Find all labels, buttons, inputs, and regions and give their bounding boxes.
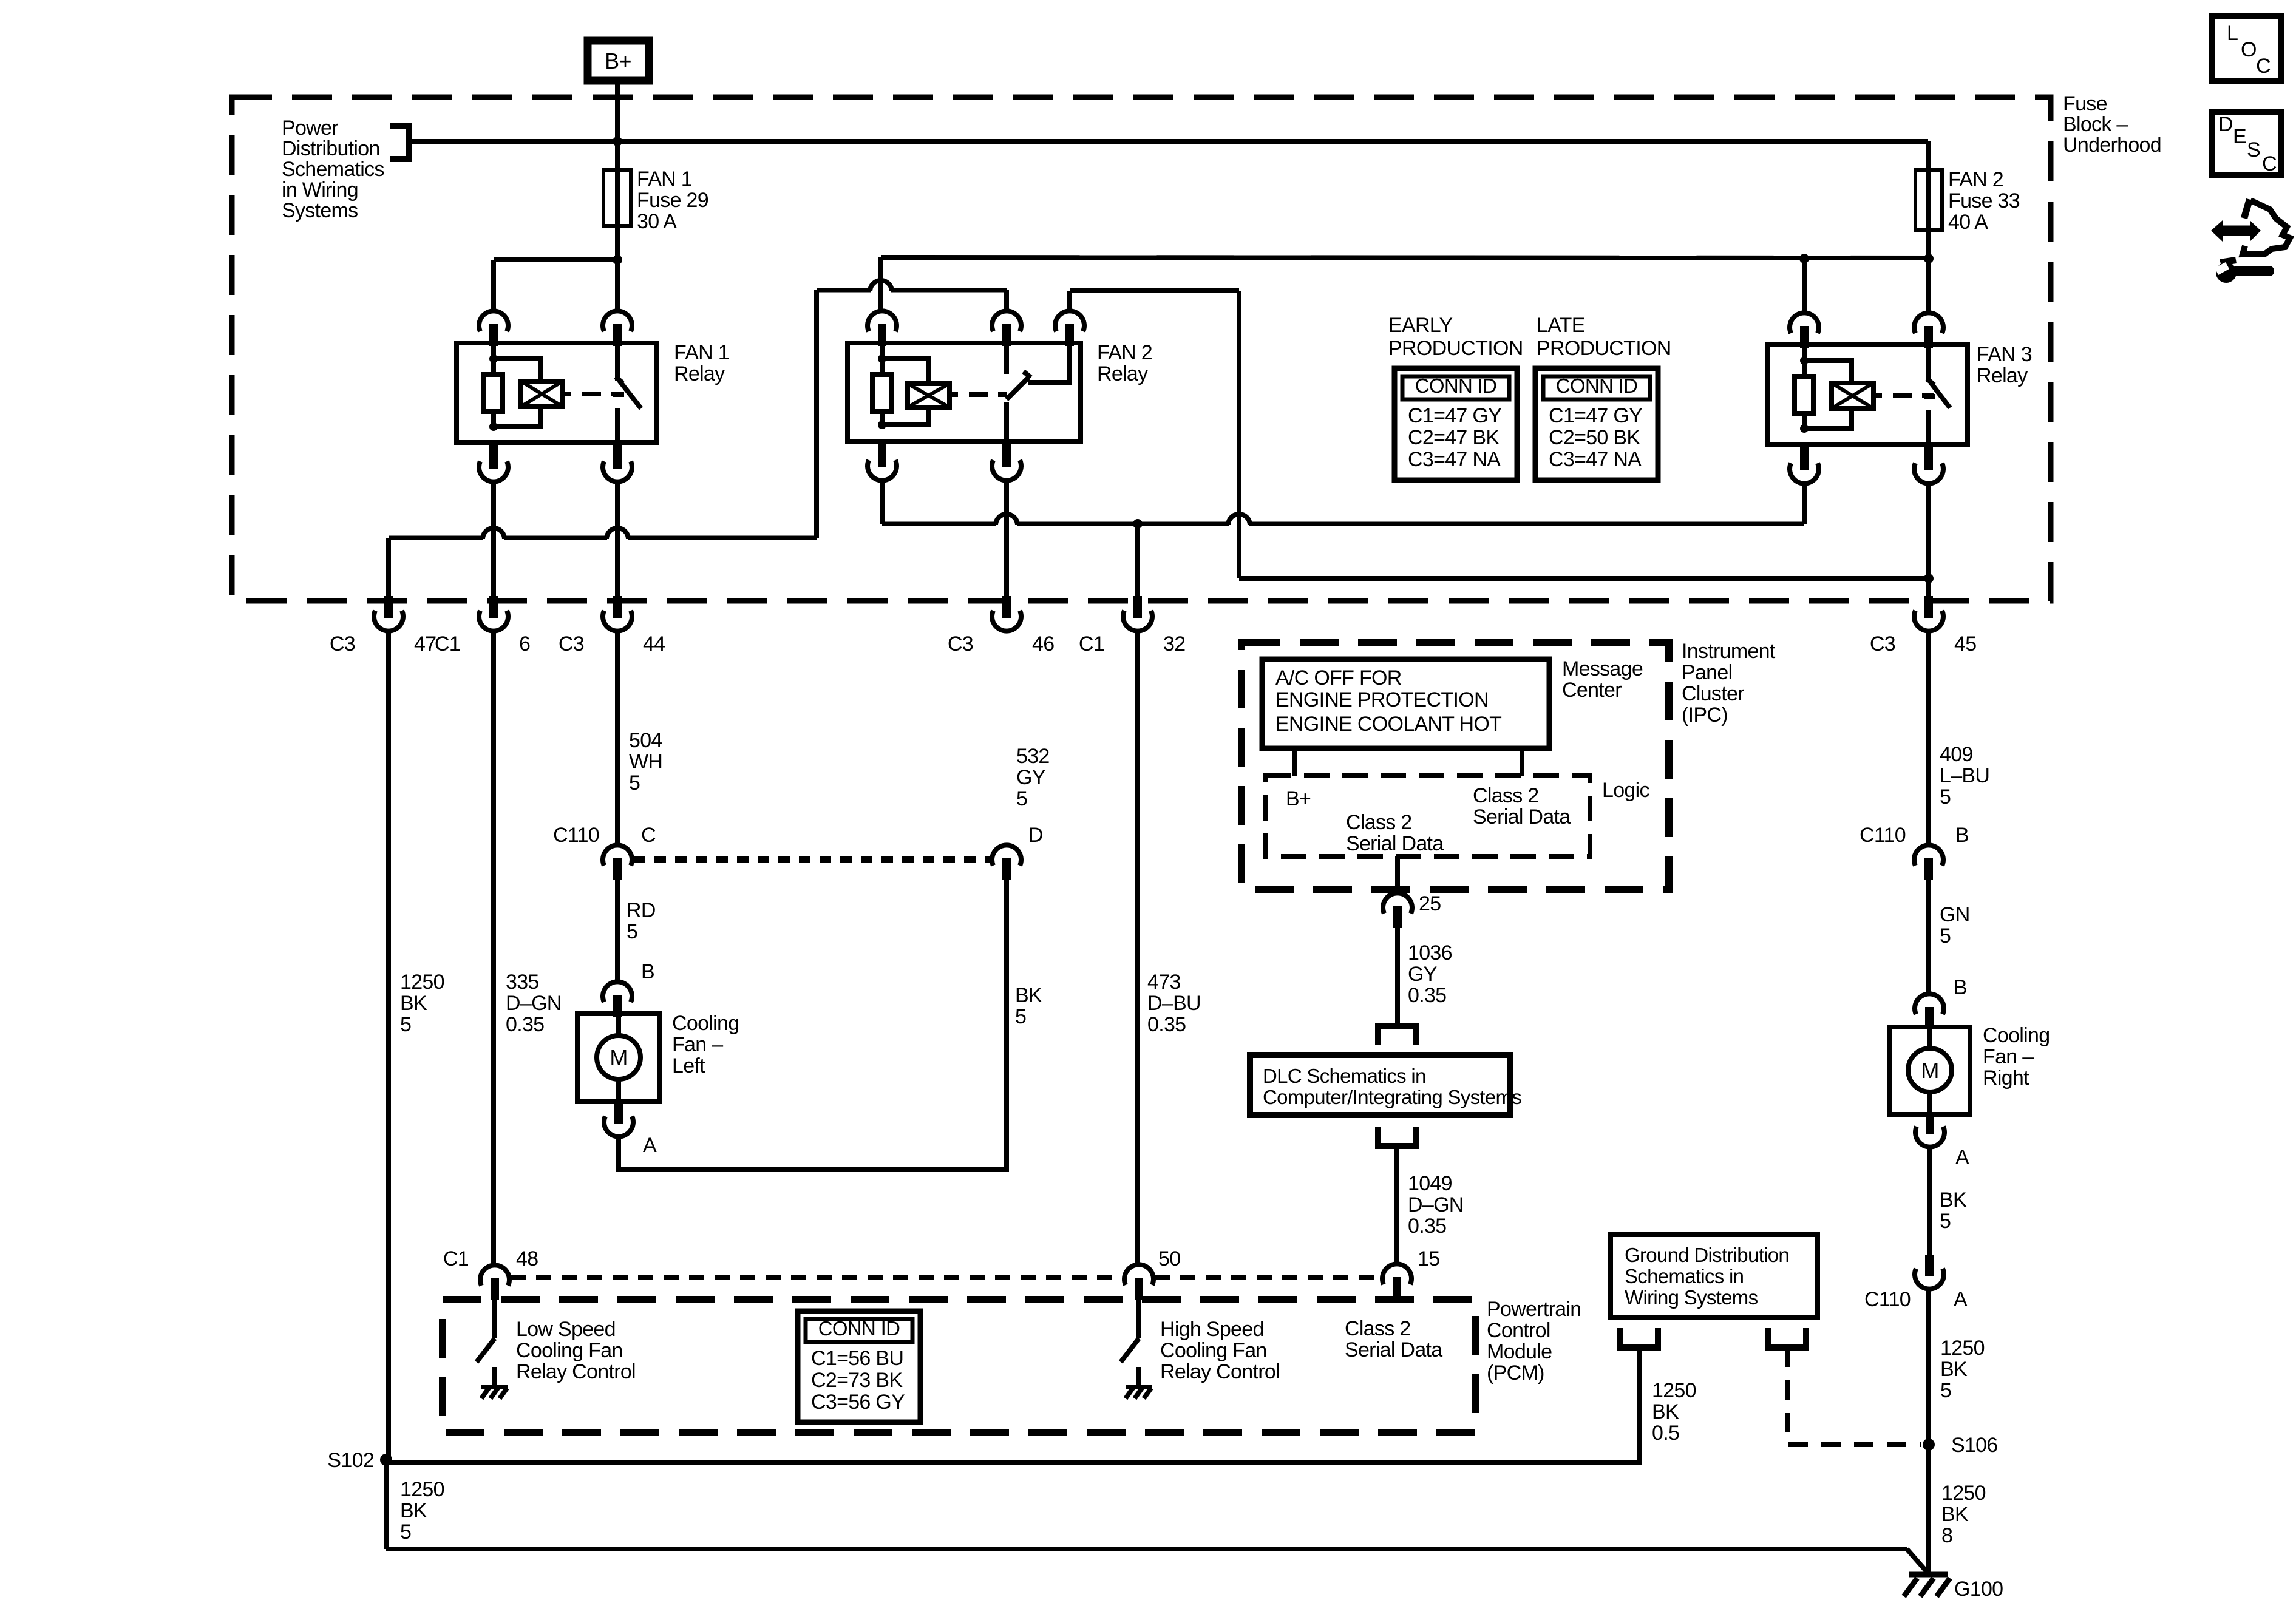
svg-text:C3=56 GY: C3=56 GY (811, 1391, 905, 1414)
svg-text:BK: BK (400, 992, 427, 1015)
hand with wrench icon thumb (2241, 198, 2253, 219)
connector C110 dashed body (634, 856, 990, 863)
wire 504 WH to C110 C (615, 631, 620, 845)
ground distribution box (1611, 1235, 1818, 1318)
svg-text:C3=47 NA: C3=47 NA (1408, 448, 1501, 471)
svg-text:C: C (2256, 55, 2271, 78)
svg-text:D: D (1028, 824, 1043, 847)
svg-text:5: 5 (1940, 1379, 1951, 1402)
relay FAN3 top connector switch pin (1914, 313, 1943, 333)
svg-text:C110: C110 (553, 824, 599, 847)
svg-text:FAN 2: FAN 2 (1097, 341, 1152, 364)
motor cooling fan left box (577, 1014, 660, 1102)
wire 335 D-GN to PCM 48 (491, 631, 496, 1265)
svg-text:1250: 1250 (1941, 1482, 1986, 1505)
svg-text:C110: C110 (1864, 1288, 1911, 1311)
wire 1250 BK 5 to S102 (386, 631, 391, 1460)
relay FAN3 switch blade (1924, 379, 1950, 408)
svg-text:15: 15 (1418, 1247, 1439, 1270)
wire FAN2 NC lower run (1239, 576, 1929, 581)
svg-text:A: A (1955, 1146, 1969, 1169)
svg-text:Instrument: Instrument (1682, 640, 1776, 663)
wire 473 D-BU to PCM 50 (1135, 631, 1140, 1264)
wire FAN1 switch drop (615, 482, 620, 596)
svg-text:G100: G100 (1954, 1578, 2003, 1601)
node bus junction at B+ (613, 137, 622, 146)
wire FAN2 NC pin riser (1067, 291, 1072, 311)
wire 1049 D-GN (1394, 1146, 1399, 1264)
svg-text:Control: Control (1487, 1319, 1550, 1342)
high speed driver ground (1126, 1387, 1152, 1398)
relay FAN2 coil return wire (882, 407, 929, 425)
svg-text:C3: C3 (559, 632, 584, 656)
svg-text:DLC Schematics in: DLC Schematics in (1263, 1065, 1426, 1087)
connector right fan pin A (1926, 1114, 1934, 1134)
svg-text:Power: Power (282, 117, 338, 140)
svg-text:M: M (610, 1045, 627, 1070)
wire RD 5 to left fan (615, 880, 620, 981)
wire 1250 BK 8 to G100 (1926, 1445, 1931, 1575)
svg-text:1036: 1036 (1408, 941, 1452, 964)
relay FAN2 coil-side wire (880, 343, 885, 425)
relay FAN1 bottom connector switch pin (613, 442, 622, 469)
connector PCM pin 15 (1382, 1264, 1411, 1284)
relay FAN3 box (1767, 345, 1968, 444)
LOC reference box (2212, 16, 2281, 81)
wire FAN2 switch feed (817, 288, 871, 293)
relay FAN3 coil-side wire (1802, 345, 1807, 429)
svg-text:Relay: Relay (674, 362, 725, 385)
wire message to logic right (1520, 748, 1524, 776)
relay FAN2 coil actuator dashes (949, 392, 1007, 397)
svg-text:Low Speed: Low Speed (516, 1318, 616, 1341)
relay FAN2 coil (908, 384, 949, 407)
svg-text:Right: Right (1983, 1066, 2029, 1090)
svg-text:5: 5 (627, 920, 637, 943)
svg-text:48: 48 (516, 1247, 538, 1270)
svg-text:Relay Control: Relay Control (516, 1360, 636, 1383)
node fuse33 junction (1924, 254, 1934, 263)
relay FAN1 box (457, 343, 657, 442)
message center box (1262, 659, 1549, 748)
connector PCM C1 pin 48 (480, 1265, 509, 1286)
svg-text:Fuse 29: Fuse 29 (637, 189, 708, 212)
wire GN 5 (1926, 880, 1931, 994)
svg-text:1250: 1250 (1940, 1337, 1985, 1360)
svg-text:Cooling Fan: Cooling Fan (516, 1339, 623, 1362)
svg-text:5: 5 (1940, 1210, 1951, 1233)
svg-text:5: 5 (1940, 785, 1951, 808)
svg-text:46: 46 (1032, 632, 1054, 656)
wire B+ to bus (615, 81, 620, 141)
svg-text:335: 335 (506, 971, 539, 994)
svg-text:FAN 1: FAN 1 (637, 168, 692, 191)
relay FAN2 top connector coil pin (868, 311, 897, 331)
svg-text:D: D (2218, 113, 2233, 136)
svg-text:Class 2: Class 2 (1345, 1317, 1410, 1340)
svg-text:Fan –: Fan – (672, 1033, 723, 1056)
svg-text:C3: C3 (330, 632, 355, 656)
svg-text:C1=47 GY: C1=47 GY (1408, 404, 1501, 427)
wire C1-32 drop (1135, 524, 1140, 596)
svg-text:5: 5 (400, 1013, 411, 1036)
connector 25 (1383, 893, 1412, 914)
PCM connector dotted line (511, 1275, 1381, 1280)
node fuse29 branch (613, 255, 622, 265)
svg-text:Fuse: Fuse (2063, 92, 2107, 115)
svg-text:0.35: 0.35 (1408, 984, 1446, 1007)
svg-text:D–GN: D–GN (1408, 1193, 1464, 1216)
svg-text:25: 25 (1419, 892, 1441, 915)
svg-text:532: 532 (1016, 745, 1050, 768)
svg-text:0.5: 0.5 (1652, 1422, 1679, 1445)
svg-text:WH: WH (629, 750, 662, 773)
svg-text:C2=73 BK: C2=73 BK (811, 1369, 903, 1392)
svg-text:C3: C3 (948, 632, 973, 656)
node S106 (1923, 1439, 1935, 1451)
svg-text:CONN ID: CONN ID (1415, 375, 1496, 397)
svg-text:8: 8 (1941, 1524, 1952, 1547)
motor cooling fan left wires (616, 1017, 621, 1036)
wire branch to FAN1 relay coil pin (494, 257, 617, 262)
svg-text:A: A (1954, 1288, 1968, 1311)
svg-text:Computer/Integrating Systems: Computer/Integrating Systems (1263, 1086, 1521, 1108)
svg-text:1049: 1049 (1408, 1172, 1452, 1195)
wire FAN2 coil feed drop (878, 257, 883, 311)
svg-text:6: 6 (519, 632, 530, 656)
svg-text:50: 50 (1158, 1247, 1180, 1270)
svg-text:Schematics: Schematics (282, 158, 384, 181)
svg-text:5: 5 (1940, 924, 1951, 947)
wire fuse33 to junction (1926, 230, 1931, 259)
dashed wire to S106 (1787, 1347, 1921, 1445)
node FAN3 switch tap (1924, 574, 1934, 583)
bottom ground run diagonal (1907, 1549, 1928, 1573)
high speed driver switch (1136, 1300, 1141, 1338)
svg-text:B: B (1955, 824, 1969, 847)
svg-text:409: 409 (1940, 743, 1973, 766)
svg-text:L–BU: L–BU (1940, 764, 1989, 787)
wire FAN3 switch pin drop (1926, 259, 1931, 313)
relay FAN2 switch fixed contact (1004, 343, 1009, 374)
connector C1 pin 32 at fuse block (1133, 596, 1142, 618)
wire FAN2 switch drop (1004, 481, 1009, 596)
svg-text:Class 2: Class 2 (1473, 784, 1538, 807)
bottom ground run wire (386, 1547, 1907, 1551)
svg-text:Powertrain: Powertrain (1487, 1298, 1581, 1321)
svg-text:5: 5 (1016, 787, 1027, 810)
connector C3 pin 45 at fuse block (1924, 596, 1933, 618)
svg-text:Fan –: Fan – (1983, 1045, 2034, 1068)
motor cooling fan right box (1890, 1027, 1970, 1114)
svg-text:1250: 1250 (400, 971, 444, 994)
motor cooling fan left circle (597, 1036, 640, 1079)
relay FAN1 node top (489, 354, 498, 363)
svg-text:Cooling: Cooling (1983, 1024, 2050, 1047)
svg-text:1250: 1250 (400, 1478, 444, 1501)
connector left fan pin B (603, 981, 632, 1002)
svg-text:Class 2: Class 2 (1346, 811, 1411, 834)
connector C110 C (603, 845, 632, 866)
connector C3 pin 47 at fuse block (384, 596, 393, 618)
svg-text:D–GN: D–GN (506, 992, 562, 1015)
wire FAN2 NC to FAN3 area drop (1237, 291, 1241, 578)
svg-text:32: 32 (1163, 632, 1185, 656)
svg-text:S102: S102 (327, 1449, 374, 1472)
relay FAN3 top connector coil pin (1790, 313, 1819, 333)
svg-text:C110: C110 (1860, 824, 1906, 847)
svg-text:C1: C1 (1079, 632, 1104, 656)
svg-text:High Speed: High Speed (1160, 1318, 1264, 1341)
svg-text:FAN 2: FAN 2 (1948, 168, 2003, 191)
svg-text:A/C OFF FOR: A/C OFF FOR (1275, 666, 1402, 690)
motor cooling fan right circle (1908, 1048, 1952, 1092)
svg-text:GY: GY (1408, 963, 1437, 986)
connector to DLC schematic top (1378, 1026, 1416, 1045)
relay FAN3 switch lower contact (1926, 410, 1931, 444)
relay FAN1 resistor (484, 375, 503, 412)
svg-text:O: O (2241, 38, 2257, 61)
instrument panel cluster dashed box (1241, 643, 1669, 889)
svg-text:E: E (2233, 125, 2246, 148)
relay FAN2 switch lower contact (1004, 402, 1009, 441)
relay FAN3 coil return wire (1804, 408, 1852, 429)
svg-text:Cooling Fan: Cooling Fan (1160, 1339, 1267, 1362)
svg-text:5: 5 (1015, 1005, 1026, 1028)
svg-text:Systems: Systems (282, 199, 358, 222)
relay FAN1 coil return wire (494, 407, 541, 427)
svg-text:BK: BK (1015, 984, 1042, 1007)
svg-text:0.35: 0.35 (506, 1013, 544, 1036)
svg-text:Serial Data: Serial Data (1345, 1338, 1442, 1361)
table late production conn id (1535, 368, 1658, 480)
relay FAN2 switch blade (1007, 371, 1031, 399)
relay FAN1 coil actuator dashes (563, 392, 623, 396)
svg-text:Serial Data: Serial Data (1473, 805, 1571, 829)
relay FAN2 top connector NC pin (1055, 311, 1084, 331)
wire message to logic left (1292, 748, 1297, 776)
ground G100 (1904, 1575, 1950, 1596)
svg-text:BK: BK (1652, 1400, 1679, 1423)
svg-text:Panel: Panel (1682, 661, 1732, 684)
svg-text:Cluster: Cluster (1682, 682, 1744, 705)
connector from DLC schematic bottom (1378, 1127, 1416, 1146)
relay FAN1 node bottom (489, 422, 498, 431)
svg-text:BK: BK (1941, 1503, 1969, 1526)
svg-text:LATE: LATE (1537, 314, 1585, 337)
wire FAN1 coil drop (491, 482, 496, 596)
svg-text:B: B (1954, 976, 1967, 999)
svg-text:Block –: Block – (2063, 113, 2128, 136)
relay FAN2 bottom connector switch pin (1002, 441, 1011, 467)
relay FAN1 top connector switch pin (603, 311, 632, 331)
svg-text:C1: C1 (443, 1247, 469, 1270)
B+ power feed box (588, 41, 649, 81)
svg-text:(PCM): (PCM) (1487, 1361, 1544, 1385)
relay FAN2 resistor (872, 375, 892, 412)
hand with wrench icon wrench (2216, 262, 2237, 283)
wire left fan return (619, 880, 1007, 1170)
relay FAN1 switch blade (613, 377, 641, 408)
svg-text:Wiring Systems: Wiring Systems (1625, 1286, 1758, 1309)
hand with wrench icon hand outline (2243, 200, 2290, 254)
relay FAN1 coil feed wire (494, 359, 541, 381)
svg-text:5: 5 (400, 1520, 411, 1544)
svg-text:in Wiring: in Wiring (282, 178, 358, 202)
relay FAN1 coil-side wire (491, 343, 496, 427)
low speed driver ground (481, 1387, 508, 1398)
svg-text:Relay Control: Relay Control (1160, 1360, 1280, 1383)
svg-text:Cooling: Cooling (672, 1012, 739, 1035)
svg-text:504: 504 (629, 729, 662, 752)
low speed driver switch (492, 1300, 497, 1338)
svg-text:Center: Center (1562, 679, 1622, 702)
svg-text:Underhood: Underhood (2063, 134, 2161, 157)
svg-text:CONN ID: CONN ID (818, 1317, 900, 1340)
wire 409 L-BU to C110 B (1926, 631, 1931, 845)
wire branch to FAN1 relay switch pin (615, 260, 620, 311)
svg-text:Serial Data: Serial Data (1346, 832, 1444, 855)
wire 1250 BK 5 to S106 (1926, 1289, 1931, 1445)
connector right fan pin B (1915, 994, 1944, 1014)
DESC reference box (2212, 112, 2281, 175)
svg-text:5: 5 (629, 771, 640, 795)
svg-text:PRODUCTION: PRODUCTION (1388, 337, 1523, 360)
svg-text:D–BU: D–BU (1147, 992, 1201, 1015)
svg-text:BK: BK (1940, 1188, 1967, 1212)
connector PCM pin 50 (1124, 1264, 1153, 1285)
wire C3-47 riser to FAN2 (389, 536, 483, 540)
svg-text:1250: 1250 (1652, 1379, 1696, 1402)
wire 1036 GY (1395, 928, 1400, 1026)
connector C110 B (1914, 845, 1943, 866)
connector C3 pin 44 at fuse block (613, 596, 622, 618)
svg-text:30 A: 30 A (637, 210, 677, 233)
relay FAN3 coil (1832, 383, 1873, 408)
svg-text:BK: BK (1940, 1358, 1968, 1381)
svg-text:A: A (643, 1134, 657, 1157)
svg-text:(IPC): (IPC) (1682, 703, 1728, 727)
connector C1 pin 6 at fuse block (489, 596, 498, 618)
relay FAN1 switch fixed contact (615, 343, 620, 381)
svg-text:473: 473 (1147, 971, 1181, 994)
svg-text:Fuse 33: Fuse 33 (1948, 189, 2020, 212)
wire BK 5 right (1927, 1147, 1932, 1256)
svg-text:Schematics in: Schematics in (1625, 1265, 1744, 1287)
svg-text:47: 47 (414, 632, 436, 656)
relay FAN3 coil actuator dashes (1873, 393, 1934, 398)
svg-text:B: B (641, 960, 654, 983)
svg-text:PRODUCTION: PRODUCTION (1537, 337, 1671, 360)
svg-text:S: S (2247, 138, 2260, 161)
svg-text:ENGINE COOLANT HOT: ENGINE COOLANT HOT (1275, 713, 1501, 736)
power distribution reference bracket (390, 126, 409, 159)
svg-text:44: 44 (643, 632, 665, 656)
relay FAN3 resistor (1795, 376, 1813, 413)
svg-text:Logic: Logic (1602, 779, 1649, 802)
connector ground distribution right (1768, 1328, 1806, 1347)
svg-text:CONN ID: CONN ID (1556, 375, 1637, 397)
node S102 (380, 1454, 392, 1466)
fuse F33 FAN 2 (1926, 141, 1931, 170)
wire logic to connector 25 (1395, 856, 1400, 893)
svg-text:GY: GY (1016, 766, 1045, 789)
wire FAN2 coil feed upper (881, 257, 1928, 258)
connector C110 A (1925, 1255, 1934, 1276)
svg-text:FAN 1: FAN 1 (674, 341, 729, 364)
connector left fan pin A (614, 1102, 623, 1124)
node FAN3 coil feed (1799, 254, 1809, 263)
wire fuse29 to relay feed (615, 226, 620, 260)
svg-text:EARLY: EARLY (1388, 314, 1452, 337)
svg-text:C: C (641, 824, 656, 847)
svg-text:Relay: Relay (1097, 362, 1148, 385)
svg-text:C1=56 BU: C1=56 BU (811, 1347, 903, 1370)
svg-text:B+: B+ (1286, 787, 1311, 810)
DLC schematics box (1250, 1055, 1510, 1115)
relay FAN2 bottom connector coil pin (878, 441, 886, 467)
logic dashed box (1266, 776, 1590, 856)
connector ground distribution left (1620, 1328, 1658, 1347)
svg-text:S106: S106 (1951, 1434, 1998, 1457)
wire FAN3 coil pin drop (1802, 259, 1807, 313)
svg-text:C1=47 GY: C1=47 GY (1549, 404, 1642, 427)
svg-text:Distribution: Distribution (282, 137, 380, 160)
relay FAN2 coil feed wire (882, 359, 929, 384)
svg-text:40 A: 40 A (1948, 211, 1988, 234)
svg-text:Module: Module (1487, 1340, 1552, 1363)
svg-text:FAN 3: FAN 3 (1977, 343, 2032, 366)
svg-text:BK: BK (400, 1499, 427, 1522)
svg-text:0.35: 0.35 (1147, 1013, 1186, 1036)
wire FAN3 switch drop (1926, 484, 1931, 596)
relay FAN2 node top (878, 354, 886, 363)
svg-text:B+: B+ (605, 49, 631, 73)
relay FAN1 bottom connector coil pin (489, 442, 498, 469)
wire S102 to ground run (384, 1460, 389, 1549)
relay FAN1 top connector coil pin (479, 311, 508, 331)
svg-text:Relay: Relay (1977, 364, 2028, 387)
relay FAN3 node top (1800, 356, 1809, 365)
connector C110 D (992, 845, 1021, 866)
svg-text:ENGINE PROTECTION: ENGINE PROTECTION (1275, 688, 1489, 711)
motor cooling fan right wires (1927, 1029, 1932, 1048)
relay FAN2 switch NC link (1028, 343, 1070, 382)
wire PCM ground 1250 BK 0.5 (386, 1347, 1639, 1463)
svg-text:L: L (2227, 22, 2238, 45)
svg-text:C3=47 NA: C3=47 NA (1549, 448, 1642, 471)
top power bus wire (409, 139, 1928, 144)
relay FAN3 switch fixed contact (1926, 345, 1931, 382)
node C1-32 tap (1133, 519, 1143, 529)
svg-text:RD: RD (627, 899, 656, 922)
relay FAN2 top connector switch pin (992, 311, 1021, 331)
svg-text:Left: Left (672, 1054, 705, 1077)
wire FAN2 coil return bus (882, 522, 996, 526)
svg-text:C3: C3 (1870, 632, 1895, 656)
table early production conn id (1394, 368, 1517, 480)
svg-text:C2=47 BK: C2=47 BK (1408, 426, 1500, 449)
svg-text:GN: GN (1940, 903, 1970, 926)
relay FAN3 coil feed wire (1804, 361, 1852, 383)
powertrain control module dashed box (443, 1300, 1475, 1432)
hand with wrench icon arrow (2211, 220, 2223, 242)
relay FAN1 switch lower contact (615, 408, 620, 442)
relay FAN3 bottom connector switch pin (1924, 444, 1933, 470)
svg-text:0.35: 0.35 (1408, 1215, 1446, 1238)
relay FAN2 node bottom (878, 421, 886, 429)
fuse F29 FAN 1 (615, 141, 620, 170)
